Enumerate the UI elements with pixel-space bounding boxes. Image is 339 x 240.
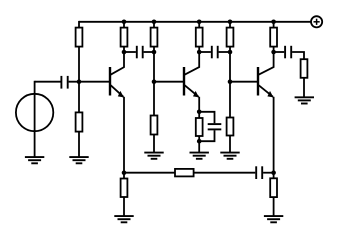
wire: source to C1 left plate <box>35 81 61 83</box>
resistor R6 (Q2 collector load) <box>196 28 203 47</box>
source V1 (signal source circle) <box>16 94 53 131</box>
wire: node J to C5 left plate <box>274 51 285 53</box>
wire: Q3 collector load column from rail <box>273 22 275 52</box>
resistor R9 (lower bias, stage 3) <box>227 118 234 136</box>
node B (Q1 collector) <box>122 50 127 55</box>
power terminal +V <box>311 16 322 27</box>
transistor Q2 <box>184 52 199 97</box>
wire: Q3 emitter down to node L <box>273 97 275 173</box>
wire: bypass branch top <box>199 112 214 123</box>
wire: stage-2 bias column from rail to Q2 base node <box>153 22 155 82</box>
wire: node B to C2 left plate <box>124 51 136 53</box>
capacitor C2 (interstage coupling 1-2) <box>137 46 143 59</box>
wire: base node down to ground <box>78 82 80 157</box>
wire: C5 right plate to output load <box>292 52 304 59</box>
wire: C6 right plate to Q3 emitter node <box>263 172 274 174</box>
wire: Q1 emitter down to feedback node <box>123 97 125 173</box>
ground (under R2) <box>69 157 88 163</box>
resistor R4 (upper bias, stage 2) <box>151 28 158 47</box>
ground (under R11) <box>295 97 314 103</box>
ground (under R9) <box>220 153 239 159</box>
wire: RC column down to ground <box>198 112 200 153</box>
wire: Rf to C6 left plate <box>194 172 256 174</box>
node (rail tap, R6) <box>197 20 202 25</box>
node H (C3 junction on bias column) <box>228 50 233 55</box>
node C (C2 junction on bias column) <box>152 50 157 55</box>
node (rail tap, R4) <box>152 20 157 25</box>
wire: collector load column from rail <box>123 22 125 52</box>
node K (feedback node, Q1 emitter) <box>122 170 127 175</box>
wire: bypass branch bottom <box>199 130 214 141</box>
node (rail tap, R3) <box>122 20 127 25</box>
node E (Q2 collector) <box>197 50 202 55</box>
wire: Q2 emitter down to RC network <box>198 97 200 112</box>
wire: source vertical lead from input wire through circle to ground <box>34 81 36 157</box>
resistor R5 (lower bias, stage 2) <box>151 116 158 135</box>
wire: Q3 base node down to ground <box>229 82 231 153</box>
capacitor C5 (output coupling) <box>285 46 291 59</box>
resistor R8 (upper bias, stage 3) <box>227 28 234 47</box>
node (rail tap, R8) <box>228 20 233 25</box>
wire: C1 right plate through base node to Q1 base <box>69 81 110 83</box>
ground (under source V1) <box>25 157 44 163</box>
ground (under R12) <box>114 216 133 222</box>
resistor R14 (Q3 emitter) <box>270 178 277 197</box>
wire: stage-3 bias column from rail to Q3 base node <box>229 22 231 82</box>
wire: Q2 base wire <box>154 81 184 83</box>
resistor R13 (feedback, horizontal) <box>175 169 194 177</box>
wire: C3 right plate to stage-3 bias column <box>219 51 230 53</box>
ground (under R5) <box>144 153 163 159</box>
transistor Q3 <box>258 52 274 97</box>
wire: feedback node down to ground <box>123 173 125 216</box>
wire: C2 right plate to stage-2 bias column <box>144 51 154 53</box>
wire: node L down to ground <box>273 173 275 216</box>
wire: feedback node to Rf <box>124 172 175 174</box>
capacitor C4 (emitter bypass) <box>208 124 222 129</box>
node D (Q2 base node) <box>152 79 157 84</box>
resistor R10 (Q3 collector load) <box>270 28 277 47</box>
node F (Q2 emitter / RC top) <box>197 110 202 115</box>
node G (RC bottom) <box>197 139 202 144</box>
node I (Q3 base node) <box>228 79 233 84</box>
node L (Q3 emitter node) <box>271 170 276 175</box>
wire: input bias column from rail to base node <box>78 21 80 82</box>
wire: positive supply rail <box>79 21 311 23</box>
ground (under R14) <box>264 216 283 222</box>
node J (Q3 collector) <box>271 50 276 55</box>
transistor Q1 <box>110 52 124 97</box>
resistor R1 (upper bias, input stage) <box>76 28 83 47</box>
ground (under Q2 emitter RC) <box>190 153 209 159</box>
wire: Q2 collector load column from rail <box>198 22 200 52</box>
wire: node E to C3 left plate <box>199 51 211 53</box>
resistor R11 (output load) <box>301 59 308 78</box>
wire: R11 to ground <box>303 77 305 97</box>
resistor R3 (Q1 collector load) <box>121 28 128 47</box>
resistor R12 (Q1 emitter) <box>121 179 128 198</box>
resistor R2 (lower bias, input stage) <box>76 112 83 131</box>
node A (Q1 base node) <box>77 79 82 84</box>
capacitor C6 (feedback) <box>256 166 262 179</box>
wire: Q2 base node down to ground <box>153 82 155 153</box>
wire: Q3 base wire <box>230 81 258 83</box>
node (rail tap, R10) <box>271 20 276 25</box>
resistor R7 (Q2 emitter) <box>196 118 203 136</box>
capacitor C1 (input coupling) <box>61 76 67 89</box>
capacitor C3 (interstage coupling 2-3) <box>212 46 218 59</box>
